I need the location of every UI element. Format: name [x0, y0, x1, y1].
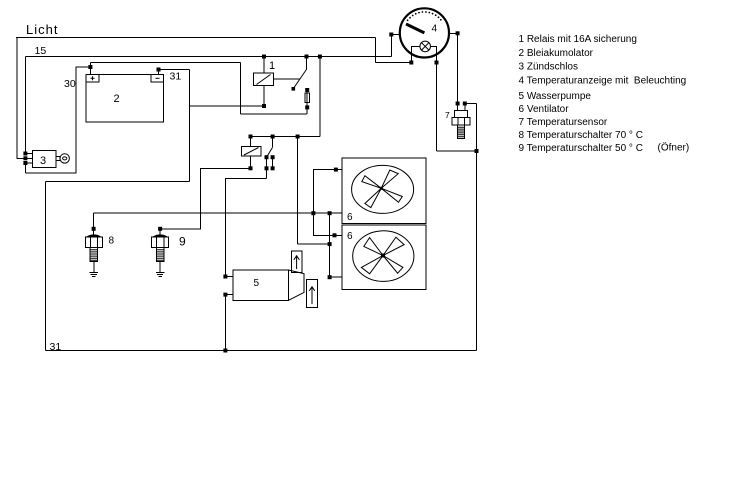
thermo switch S8 threaded stud — [90, 248, 98, 262]
wire to lamp left — [376, 62, 412, 64]
node lamp sensor junction — [475, 150, 478, 153]
thermo switch S9 hex body — [152, 237, 169, 248]
fan M6a hub — [380, 187, 382, 189]
node B fan rail — [328, 212, 331, 215]
wire relay1 pole stem — [306, 57, 308, 70]
wire fuse link — [306, 90, 308, 107]
node fuse bottom — [306, 106, 309, 109]
gauge lamp cross — [422, 43, 429, 50]
fuse F1 body — [305, 93, 310, 103]
gauge U4 body circle — [400, 8, 449, 57]
node ground rail junction — [224, 349, 227, 352]
wire battery plus up — [89, 63, 91, 75]
sensor B7 threaded stud — [458, 125, 465, 138]
thermo switch S9 threaded stud — [156, 248, 164, 262]
node relay1 coil top — [263, 55, 266, 58]
gauge U4 needle — [406, 24, 424, 33]
node switch8 terminal — [92, 227, 95, 230]
node D — [328, 243, 331, 246]
fan M6a shroud ellipse — [352, 165, 414, 213]
ground S8 — [90, 272, 99, 276]
svg-text:4: 4 — [432, 24, 438, 35]
node switch9 terminal — [159, 227, 162, 230]
wire junction drop to fan2 lower — [297, 137, 299, 245]
svg-text:6: 6 — [347, 212, 353, 223]
fan M6a box — [342, 158, 426, 223]
thermo switch S8 hex facets — [90, 237, 97, 248]
wire plus rail drop — [239, 63, 241, 115]
node left post bottom — [265, 167, 268, 170]
wire 31 ground rail — [45, 350, 476, 352]
battery B2 plus terminal box — [86, 75, 99, 82]
ignition switch S3 terminal stubs — [25, 154, 32, 164]
wire relay2 left post — [266, 157, 268, 178]
wire relay2 pole stem — [272, 137, 274, 148]
relay K2 coil diagonal — [244, 148, 259, 156]
node right post bottom — [271, 167, 274, 170]
wire battery minus up — [158, 70, 160, 75]
wire fuse bottom drop — [306, 107, 308, 114]
node gauge right corner — [456, 32, 459, 35]
wire fan1 upper terminal — [313, 169, 342, 213]
svg-text:15: 15 — [35, 45, 47, 57]
wire left post to pump — [225, 178, 266, 276]
node battery plus — [89, 66, 92, 69]
svg-text:Licht: Licht — [26, 22, 58, 37]
wire relay2 coil top — [250, 137, 252, 147]
wire minus drop — [189, 70, 191, 182]
fan M6a blade 3 — [365, 188, 381, 207]
node relay2 pole — [271, 135, 274, 138]
wire to fuse bottom — [240, 113, 307, 115]
sensor B7 threads — [458, 127, 465, 137]
node fuse top — [306, 89, 309, 92]
wire 15 left drop to switch3 — [24, 57, 26, 154]
wire battery plus rail — [90, 62, 240, 64]
battery plus sign — [91, 76, 95, 80]
svg-text:9 Temperaturschalter 50 ° C: 9 Temperaturschalter 50 ° C — [519, 143, 643, 154]
node relay2 coil top — [249, 135, 252, 138]
relay K1 switch blade — [293, 69, 306, 88]
gauge U4 tick dots — [407, 11, 442, 21]
fan M6a blade 2 — [362, 176, 382, 189]
fan M6b blade 4 — [383, 256, 403, 274]
ignition switch S3 key outer circle — [60, 154, 69, 163]
node relay2 coil bottom — [249, 167, 252, 170]
pump M5 upper outlet — [291, 251, 301, 273]
wire Licht left drop to switch3 — [17, 38, 32, 159]
pump M5 cone — [289, 270, 305, 300]
battery B2 minus terminal box — [151, 75, 164, 82]
svg-text:7: 7 — [445, 110, 450, 120]
svg-text:5 Wasserpumpe: 5 Wasserpumpe — [519, 91, 592, 102]
thermo switch S8 stem stub — [93, 230, 95, 235]
thermo switch S9 stem stub — [159, 230, 161, 235]
svg-text:1 Relais mit 16A sicherung: 1 Relais mit 16A sicherung — [519, 34, 637, 45]
svg-text:31: 31 — [170, 71, 182, 83]
node relay1 coil bottom — [263, 105, 266, 108]
fan M6b blade 1 — [383, 237, 404, 255]
svg-text:6: 6 — [347, 231, 353, 242]
fan M6a blade 1 — [381, 170, 398, 188]
svg-text:1: 1 — [269, 60, 275, 72]
pump M5 lower outlet arrow — [309, 287, 315, 304]
sensor B7 hex nut — [452, 118, 470, 126]
thermo switch S8 threads — [90, 250, 98, 260]
ignition switch S3 box — [32, 150, 56, 167]
wire relay1 coil top — [263, 57, 265, 74]
svg-text:8 Temperaturschalter 70 ° C: 8 Temperaturschalter 70 ° C — [519, 130, 643, 141]
node lamp right — [435, 61, 438, 64]
svg-text:(Öfner): (Öfner) — [658, 142, 690, 154]
thermo switch S8 hex body — [85, 237, 102, 248]
node bus top — [318, 55, 321, 58]
node right post top — [271, 156, 274, 159]
svg-text:8: 8 — [109, 236, 115, 247]
thermo switch S8 ground stem — [93, 262, 95, 273]
fan M6b blade 3 — [361, 256, 383, 274]
thermo switch S9 ground stem — [159, 262, 161, 273]
wire dotB drop — [329, 213, 331, 277]
battery B2 outer box — [86, 75, 164, 123]
relay K2 box — [242, 146, 262, 156]
wire Licht horizontal rail — [16, 37, 376, 39]
wire sensor right horizontal — [465, 102, 477, 104]
fan M6a blade 4 — [381, 188, 402, 202]
wire lamp right drop — [431, 47, 437, 152]
wire temperature rail to fans — [94, 212, 343, 214]
node lamp left — [410, 61, 413, 64]
wire switch8 riser — [93, 213, 95, 229]
wire 15 rail to gauge — [391, 35, 399, 57]
gauge lamp circle — [420, 41, 431, 52]
wire lamp left riser — [411, 47, 420, 63]
wire left frame drop — [44, 182, 46, 351]
node switch3 terminal2 — [24, 157, 27, 160]
node E — [328, 276, 331, 279]
node C fan2 wire — [333, 234, 336, 237]
svg-text:3: 3 — [40, 155, 46, 167]
wire relay1 contact — [274, 78, 300, 80]
relay K2 switch blade — [267, 147, 273, 157]
wire bus drop to relay2 rail — [319, 57, 321, 137]
node pump minus — [224, 293, 227, 296]
node relay2 rail junction — [296, 135, 299, 138]
node F fan1 terminal — [334, 168, 337, 171]
relay K1 box — [254, 73, 274, 86]
ground S9 — [156, 272, 165, 276]
wire gauge right to sensor — [450, 33, 458, 110]
wire Licht right drop — [375, 38, 377, 63]
svg-text:9: 9 — [179, 234, 186, 248]
sensor B7 hex facets — [458, 118, 465, 126]
wire to dot D — [298, 243, 330, 245]
thermo switch S9 hex facets — [157, 237, 164, 248]
svg-text:3 Zündschlos: 3 Zündschlos — [519, 62, 578, 73]
svg-text:31: 31 — [50, 341, 62, 353]
wire battery plus to left — [25, 67, 90, 173]
wire fan2 upper terminal — [313, 213, 342, 235]
relay K1 coil diagonal — [257, 75, 271, 85]
node switch3 terminal3 — [24, 162, 27, 165]
node battery minus — [157, 68, 160, 71]
relay K1 blade contact dot — [292, 88, 295, 91]
svg-text:4 Temperaturanzeige mit Beleu: 4 Temperaturanzeige mit Beleuchting — [519, 76, 687, 87]
node pump plus — [224, 275, 227, 278]
wire lamp to sensor junction — [437, 150, 477, 152]
wire relay2 right post — [272, 157, 274, 168]
node sensor right — [463, 102, 466, 105]
node left post top — [265, 156, 268, 159]
thermo switch S8 cap — [87, 235, 101, 237]
wire 15 rail — [25, 56, 391, 58]
pump M5 lower outlet — [307, 280, 318, 308]
wire minus to left frame — [45, 181, 189, 183]
wire right riser sensor to rail — [476, 103, 478, 350]
wire to fan2 bottom terminal — [330, 276, 343, 278]
pump M5 body box — [233, 270, 288, 300]
wire relay2 top rail — [251, 136, 320, 138]
thermo switch S9 threads — [156, 250, 164, 260]
node relay1 pole — [305, 55, 308, 58]
wire battery minus rail — [159, 69, 190, 71]
svg-text:2 Bleiakumolator: 2 Bleiakumolator — [519, 48, 594, 59]
wire switch3 bottom terminal drop — [24, 163, 26, 173]
wire to relay1 coil bottom — [190, 105, 265, 107]
battery minus sign — [156, 77, 160, 79]
fan M6b hub — [382, 254, 385, 257]
node switch3 terminal1 — [24, 152, 27, 155]
node A fan rail — [312, 212, 315, 215]
ignition switch S3 key stub — [56, 156, 60, 160]
svg-text:5: 5 — [254, 278, 260, 289]
wire relay1 coil bottom — [263, 86, 265, 107]
node sensor left — [456, 102, 459, 105]
pump M5 upper outlet arrow — [294, 256, 300, 269]
fan M6b shroud ellipse — [353, 231, 414, 282]
svg-text:2: 2 — [114, 93, 120, 105]
svg-text:6 Ventilator: 6 Ventilator — [519, 104, 570, 115]
node gauge left corner — [390, 33, 393, 36]
fan M6b blade 2 — [364, 238, 383, 256]
wire relay2 coil to switch9 — [160, 168, 250, 229]
wire pump bottom to ground rail — [224, 295, 226, 351]
wire sensor right stub — [464, 103, 466, 110]
thermo switch S9 cap — [153, 235, 167, 237]
ignition switch S3 keyhole — [63, 157, 67, 160]
fan M6b box — [342, 225, 426, 289]
sensor B7 upper body — [455, 110, 468, 117]
svg-text:7 Temperatursensor: 7 Temperatursensor — [519, 117, 608, 128]
wire relay2 coil bottom — [250, 156, 252, 168]
wire pump terminal stubs — [225, 277, 233, 295]
svg-text:30: 30 — [64, 78, 76, 90]
